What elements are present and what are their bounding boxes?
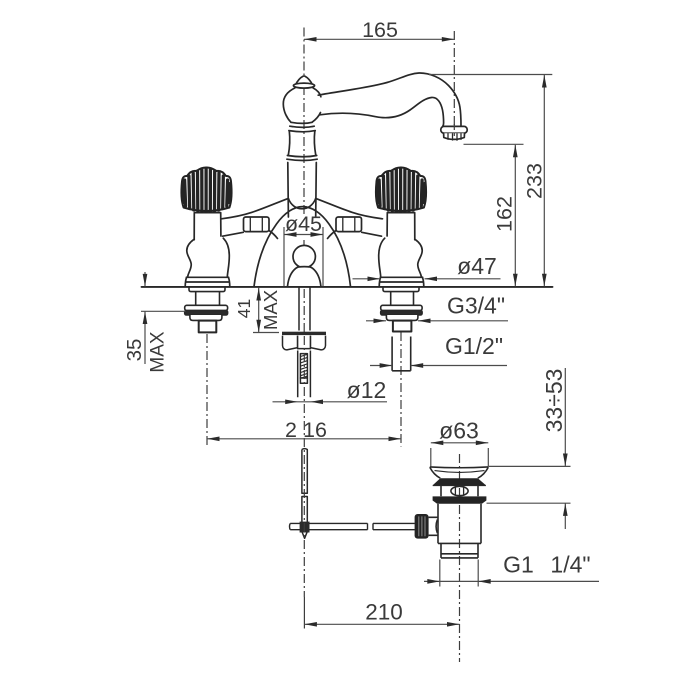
drain side knob — [415, 514, 429, 539]
drain body — [438, 504, 481, 544]
centerline pop-up rod — [303, 289, 305, 335]
lever-rod joint block — [300, 522, 310, 533]
right shank collar — [383, 287, 419, 292]
drain flange dark band — [433, 478, 486, 485]
svg-text:ø47: ø47 — [457, 253, 497, 279]
pop-up rod upper — [299, 287, 310, 331]
left handle neck — [194, 213, 221, 240]
spout aerator ring — [441, 126, 467, 133]
ball on dome — [293, 245, 315, 267]
dim 41 line — [258, 288, 260, 333]
dim o12 line — [273, 401, 388, 403]
drain tailpiece — [441, 544, 478, 558]
spout aerator body — [444, 133, 465, 139]
left shank washer — [185, 305, 228, 310]
bridge tube stub right — [328, 231, 337, 239]
coupling nut right — [336, 217, 362, 232]
spout finial cap — [296, 76, 313, 85]
ext line 41 bottom — [253, 332, 279, 334]
dim G3/4 leader — [366, 320, 508, 322]
svg-text:MAX: MAX — [260, 290, 281, 330]
dim G1 1/4 ext lines — [440, 560, 478, 587]
centerline left shank — [206, 334, 208, 447]
lower lift rod upper segment — [302, 449, 307, 494]
centerline drain vertical — [459, 454, 461, 662]
left shank locknut dark — [185, 311, 228, 316]
left shank step — [190, 315, 222, 320]
spout neck lower rings — [287, 156, 317, 161]
left shank nut — [199, 321, 217, 333]
svg-text:35: 35 — [123, 339, 146, 362]
drain plug mechanism — [451, 486, 468, 495]
horizontal lever rod right piece — [373, 523, 415, 529]
wingnut right wing — [310, 336, 325, 350]
drain flange rim — [430, 466, 489, 469]
wingnut left wing — [283, 336, 298, 350]
rod cage — [298, 351, 311, 398]
drain lower dark band — [433, 496, 487, 503]
spout finial base ring — [293, 83, 314, 88]
spout neck taper — [288, 131, 316, 155]
drain funnel sides — [430, 467, 489, 478]
bridge arch underside — [254, 207, 351, 287]
bridge column base fillet — [288, 199, 315, 209]
inner threaded rod — [300, 354, 307, 378]
dim o45 ext lines — [284, 227, 323, 286]
centerline right shank — [400, 332, 402, 447]
dim 162 line — [514, 145, 516, 286]
right handle neck — [387, 213, 415, 240]
centerline spout axis upper — [303, 28, 305, 76]
right shank tube — [391, 292, 414, 306]
dim 165 line — [304, 38, 454, 40]
right valve body inner — [379, 238, 385, 277]
svg-text:ø63: ø63 — [439, 418, 479, 444]
centerline under ball dome — [303, 240, 305, 247]
right shank locknut dark — [381, 311, 422, 316]
svg-text:G1: G1 — [503, 552, 534, 578]
svg-text:G1/2": G1/2" — [445, 333, 503, 359]
svg-text:162: 162 — [492, 196, 516, 232]
handle knob left — [181, 167, 231, 211]
centerline through rod assembly — [303, 336, 305, 597]
wingnut center block — [298, 336, 311, 349]
left valve body outer — [187, 239, 194, 277]
ext line 35 bottom — [141, 310, 186, 312]
right valve flange — [379, 277, 424, 286]
dim 210 line — [304, 623, 459, 625]
dim o63 ext lines — [431, 448, 489, 467]
deck mounting line — [142, 286, 553, 288]
left shank collar — [189, 287, 225, 292]
dim G1 1/4 leader — [424, 580, 599, 582]
drain funnel inner arc — [435, 471, 485, 473]
inner rod lower box — [300, 378, 307, 383]
svg-text:1/4": 1/4" — [550, 552, 590, 578]
svg-text:ø45: ø45 — [285, 212, 322, 236]
lower lift rod lower segment — [302, 497, 307, 539]
drain upper cylinder — [441, 486, 478, 497]
wingnut bar — [282, 332, 326, 335]
drawing goes here — [207, 28, 460, 663]
extension line dashed spout tip for 165 — [453, 31, 455, 135]
left valve body inner — [223, 238, 229, 277]
extension line rod end for 210 — [303, 597, 305, 629]
spout aerator knurl ticks — [448, 134, 461, 141]
left shank tube — [196, 292, 220, 306]
dim 33-53 lines — [564, 368, 566, 529]
left valve flange — [185, 277, 230, 286]
dim 233 line — [543, 75, 545, 286]
dim o47 leader — [353, 278, 501, 280]
ext line spout top for 233 — [429, 74, 552, 76]
spout arm top edge — [318, 73, 461, 126]
spout neck upper rings — [289, 122, 315, 132]
ext lines 33-53 — [487, 466, 571, 503]
spout column — [288, 163, 317, 218]
coupling nut left — [244, 217, 270, 232]
svg-text:MAX: MAX — [148, 331, 169, 373]
dim G1/2 leader — [370, 365, 507, 367]
dim o45 line — [284, 234, 323, 236]
right shank nut — [393, 321, 412, 332]
svg-text:2: 2 — [285, 418, 297, 442]
dim o63 line — [431, 442, 489, 444]
right valve body outer — [415, 239, 422, 277]
ext line aerator for 162 — [464, 143, 524, 145]
right shank step — [386, 315, 418, 320]
svg-text:210: 210 — [365, 600, 403, 625]
bridge tube stub left — [269, 231, 278, 239]
right shank washer — [381, 305, 422, 310]
svg-text:G3/4": G3/4" — [447, 293, 505, 319]
svg-text:ø12: ø12 — [347, 377, 387, 403]
handle knob right — [376, 167, 426, 211]
spout bulb — [283, 88, 321, 122]
svg-text:16: 16 — [303, 418, 327, 442]
bridge arm lower edge left — [223, 232, 244, 236]
spout arm bottom edge — [320, 97, 444, 126]
dim 216 line — [207, 438, 401, 440]
drain side port — [429, 517, 438, 535]
svg-text:33÷53: 33÷53 — [541, 369, 567, 433]
dome escutcheon — [288, 267, 321, 287]
centerline spout column — [303, 86, 305, 216]
horizontal lever rod left piece — [290, 523, 368, 529]
svg-text:41: 41 — [234, 299, 254, 318]
svg-text:233: 233 — [522, 163, 546, 199]
bridge tube top edge right — [316, 198, 383, 218]
svg-text:165: 165 — [362, 18, 398, 42]
bridge tube top edge left — [222, 198, 289, 218]
bridge arm lower edge right — [362, 232, 382, 236]
centerline through aerator — [453, 124, 455, 136]
dim 35 lines — [144, 272, 146, 364]
right inlet tail G1/2 — [392, 337, 411, 371]
